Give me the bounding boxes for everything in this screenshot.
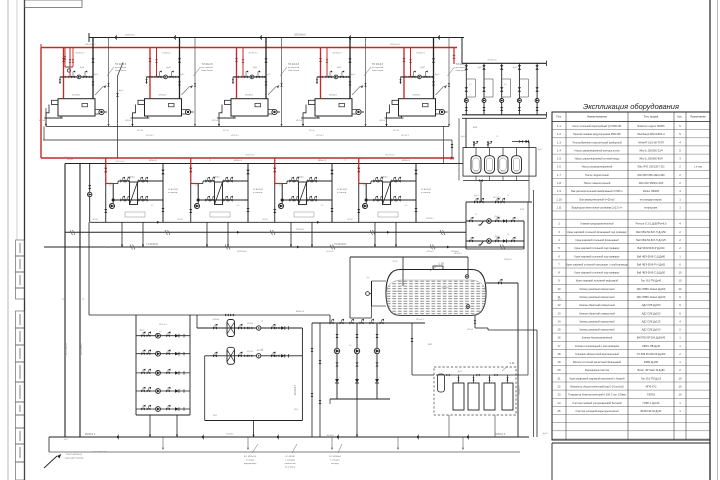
svg-text:13: 13 — [557, 311, 561, 315]
boiler K3 body — [231, 99, 268, 116]
svg-text:Затвор дисковый поворотный: Затвор дисковый поворотный — [579, 287, 615, 291]
tank left drop pipe — [349, 257, 351, 318]
make-up valve a — [474, 198, 478, 204]
row 2 inlet valve — [141, 349, 145, 355]
recirculation pump column 1 — [336, 323, 338, 399]
vent/relief drop line between boilers (after K5) — [448, 38, 450, 127]
north/flow arrow bottom-left — [44, 456, 57, 468]
row 3 inlet valve — [141, 369, 145, 375]
vent/relief drop line between boilers (after K1) — [108, 38, 110, 127]
accumulator tank body — [386, 270, 486, 316]
make-up unit right bus — [523, 221, 525, 249]
frame inner left border — [24, 0, 26, 480]
tank bottom drain — [474, 316, 476, 329]
manifold drop valve K3 — [232, 79, 234, 82]
manifold pump K2 — [164, 75, 168, 79]
run1 inlet valve — [469, 217, 473, 223]
valve on relief drop 2 — [194, 83, 196, 86]
svg-text:Затвор дисковый поворотный: Затвор дисковый поворотный — [579, 328, 615, 332]
svg-text:Wilo IL 150/260-22/4: Wilo IL 150/260-22/4 — [639, 148, 663, 152]
svg-text:Ду32: Ду32 — [140, 330, 146, 332]
svg-text:25: 25 — [557, 409, 561, 413]
run 2 valve d — [249, 354, 253, 357]
pump station column 3 — [501, 63, 503, 115]
pump station top bus — [462, 62, 546, 64]
svg-text:Ø89х3,5: Ø89х3,5 — [454, 253, 463, 255]
svg-text:в атмосф.: в атмосф. — [253, 191, 263, 194]
group T1 left drop — [105, 184, 107, 223]
left drop valve T3 — [273, 209, 276, 213]
svg-text:ГУВР-1 Ду100: ГУВР-1 Ду100 — [643, 401, 660, 405]
column 2 pump — [482, 99, 486, 103]
svg-text:Гал 161-ТМ Ду40: Гал 161-ТМ Ду40 — [641, 279, 662, 283]
row 4 inlet valve 2 — [147, 387, 151, 393]
drain channel left drop — [45, 108, 47, 126]
boiler K5 return riser — [433, 38, 435, 99]
manifold valve (red side) K2 — [152, 76, 156, 79]
boiler K5 supply riser (red) — [403, 48, 405, 99]
valve on K5 supply riser — [403, 58, 406, 62]
manifold valve K2 — [158, 76, 162, 79]
boiler K4 sight box — [339, 103, 345, 106]
group T4 upper piping — [371, 180, 383, 182]
column 1 middle valve — [465, 87, 468, 91]
svg-text:Wilo IL 250/390-90/4: Wilo IL 250/390-90/4 — [639, 157, 663, 161]
svg-text:К-2 Ø108х4: К-2 Ø108х4 — [329, 456, 341, 458]
svg-text:Ø108: Ø108 — [67, 159, 73, 161]
group T4 base frame — [378, 212, 398, 217]
svg-text:23: 23 — [557, 393, 561, 397]
run 2 check valve — [281, 354, 285, 357]
row 2 inlet valve 2 — [147, 349, 151, 355]
tank drain valve — [474, 320, 477, 323]
HX inlet valve T1 — [120, 177, 125, 183]
bus flow arrows — [157, 221, 160, 224]
svg-text:Ø57х3,5: Ø57х3,5 — [146, 135, 155, 137]
svg-text:Ду80: Ду80 — [337, 67, 341, 69]
tank level gauge — [366, 292, 370, 296]
run 1 valve d — [249, 327, 253, 330]
drain loop bottom line — [89, 314, 330, 316]
svg-text:18: 18 — [557, 352, 561, 356]
svg-text:Ø108: Ø108 — [92, 219, 98, 221]
left drop valve T1 — [104, 209, 107, 213]
HX lower valve T1 — [120, 196, 125, 202]
svg-text:Ду40: Ду40 — [495, 236, 501, 238]
manifold valve K3 — [256, 76, 260, 79]
svg-text:Wilo IP-E 100/135-7,5/2: Wilo IP-E 100/135-7,5/2 — [637, 165, 665, 169]
HX lower valve pair T1 — [125, 196, 129, 202]
make-up branch pipe 2 — [72, 48, 74, 68]
svg-text:Ø57х3: Ø57х3 — [309, 130, 316, 132]
drain tray lip K1 — [44, 117, 63, 119]
drain drop K4 — [302, 118, 304, 126]
svg-text:Ø108: Ø108 — [262, 219, 268, 221]
make-up unit bottom tie — [466, 248, 524, 250]
run 2 flow meter — [257, 354, 261, 358]
strainer run 2 — [205, 355, 303, 357]
run 2 valve b — [238, 352, 242, 358]
valve on K3 safety riser — [242, 59, 245, 62]
make-up pump run 2 — [466, 240, 524, 242]
riser a lower valve — [311, 393, 314, 397]
svg-text:Экспликация оборудования: Экспликация оборудования — [583, 102, 679, 111]
svg-text:Фильтр сетчатый магнитный флан: Фильтр сетчатый магнитный фланцевый — [573, 360, 622, 364]
drain tray lip K3 — [217, 117, 236, 119]
manifold valve (red side) K1 — [65, 76, 69, 79]
stack bottom bus — [136, 414, 190, 416]
column 3 middle valve — [500, 87, 503, 91]
svg-text:10: 10 — [678, 393, 682, 397]
callout leader K2 — [194, 67, 201, 76]
HX outlet valve T1 — [138, 177, 143, 183]
group T1 drops to header — [121, 222, 123, 247]
run 1 valve b — [238, 324, 242, 330]
svg-text:25 ВОЗД.2: 25 ВОЗД.2 — [337, 189, 348, 191]
treatment valve b — [476, 374, 479, 376]
valve on supply drop T1 — [104, 168, 107, 172]
valve on supply drop T2 — [189, 168, 192, 172]
svg-text:Насос подпиточный: Насос подпиточный — [585, 173, 609, 177]
boiler K2 circulating pump — [182, 110, 187, 115]
svg-text:10: 10 — [557, 287, 561, 291]
svg-text:Кран шаровой латунный муфтовый: Кран шаровой латунный муфтовый — [576, 279, 618, 283]
treatment valve c — [494, 374, 497, 376]
boiler K3 drain tray — [219, 105, 234, 119]
svg-text:1.7: 1.7 — [557, 173, 561, 177]
HX inlet valve pair T3 — [294, 177, 299, 183]
sheet outer left edge — [7, 0, 9, 480]
svg-text:1.6: 1.6 — [557, 165, 561, 169]
stamp box vertical text marks — [19, 243, 21, 253]
svg-text:Ду80: Ду80 — [420, 67, 424, 69]
cluster drop to main — [356, 399, 358, 437]
stack left bus — [135, 315, 137, 415]
HX outlet valve pair T1 — [143, 177, 148, 183]
empty stamp box below table — [552, 443, 710, 480]
HX inlet valve pair T2 — [210, 177, 215, 183]
HX outlet valve T2 — [223, 177, 228, 183]
svg-text:Ø108: Ø108 — [347, 219, 353, 221]
expansion tank B4 — [516, 148, 518, 156]
tank B3 membrane — [500, 158, 506, 171]
top bus end tick — [545, 61, 547, 67]
column 3 check valve — [375, 379, 379, 383]
HX inlet valve T3 — [289, 177, 294, 183]
secondary supply main (red) — [41, 157, 454, 159]
column 5 middle valve — [535, 87, 538, 91]
tank B4 drain stub — [516, 176, 518, 180]
tank label leader — [430, 266, 437, 271]
drain drop — [331, 437, 333, 448]
valve on supply drop T4 — [357, 168, 360, 172]
svg-text:16: 16 — [557, 336, 561, 340]
svg-text:подающий т/провод: подающий т/провод — [65, 457, 84, 460]
boiler K5 drain tray — [387, 105, 402, 119]
stack drop 1 — [149, 415, 151, 437]
svg-text:Взлёт ЭР Лайт-М Ду80: Взлёт ЭР Лайт-М Ду80 — [637, 368, 665, 372]
boiler K5 body — [399, 99, 436, 116]
svg-text:Счётчик газовый ультразвуковой: Счётчик газовый ультразвуковой бытовой — [572, 401, 622, 405]
valve on K1 return riser — [91, 58, 94, 62]
make-up pump run 1 — [466, 220, 524, 222]
lower valve on K2 return riser — [178, 82, 181, 86]
svg-text:1.10: 1.10 — [438, 262, 444, 266]
svg-text:в колодец: в колодец — [285, 460, 295, 462]
svg-text:Ø108х4,0: Ø108х4,0 — [295, 384, 297, 395]
svg-text:Ø57х3,5: Ø57х3,5 — [316, 135, 325, 137]
manifold vent stub 2 K5 — [425, 72, 427, 77]
plate heat exchanger T4 — [383, 182, 391, 205]
group T4 return riser — [415, 164, 417, 223]
svg-text:Prescor S 2.0 Ду50/Рр=6,0: Prescor S 2.0 Ду50/Рр=6,0 — [636, 222, 667, 226]
manifold vent stub K1 — [72, 72, 74, 77]
svg-text:Ø219х6,0: Ø219х6,0 — [115, 161, 125, 163]
svg-text:Ø159х4,5: Ø159х4,5 — [237, 251, 247, 253]
HX lower outlet valve pair T1 — [143, 196, 148, 202]
svg-text:Ø57х3: Ø57х3 — [393, 130, 400, 132]
left drain riser of tanks — [458, 118, 460, 180]
svg-text:2Ø219х6,0: 2Ø219х6,0 — [294, 34, 306, 37]
treatment unit drops to drain — [448, 415, 450, 437]
treatment feed valve — [411, 338, 414, 342]
svg-text:Насос повысительный: Насос повысительный — [584, 181, 611, 185]
plate heat exchanger T3 — [299, 182, 307, 205]
boiler K4 circulating pump — [352, 110, 357, 115]
boiler K1 sight box — [82, 103, 88, 106]
svg-text:Ø108х4: Ø108х4 — [326, 435, 334, 437]
svg-text:1.1: 1.1 — [557, 124, 561, 128]
HX outlet valve pair T2 — [228, 177, 233, 183]
svg-text:Ø57х3: Ø57х3 — [212, 120, 219, 122]
pump station column 1 — [465, 63, 467, 115]
riser b lower valve — [319, 400, 322, 404]
svg-text:низа балок: низа балок — [288, 70, 299, 72]
manifold drop valve K2 — [145, 79, 147, 82]
svg-text:Ø108х4: Ø108х4 — [329, 95, 337, 97]
svg-text:ХВП: ХВП — [428, 344, 433, 346]
group T4 circulation pump — [363, 204, 368, 209]
svg-text:Термометр биметаллический 0-15: Термометр биметаллический 0-150 С пог. 1… — [568, 393, 626, 397]
svg-text:Ø76х3: Ø76х3 — [213, 319, 220, 321]
drain drop K3 — [218, 118, 220, 126]
HX outlet valve pair T3 — [312, 177, 317, 183]
column 2 bypass — [492, 79, 494, 97]
svg-text:Ø57х3: Ø57х3 — [126, 120, 133, 122]
stack right bus — [189, 315, 191, 415]
make-up valve b — [480, 198, 484, 204]
svg-text:АБ2 ЗПВС-16нж1 Ду150: АБ2 ЗПВС-16нж1 Ду150 — [637, 295, 666, 299]
make-up unit left bus — [465, 202, 467, 249]
pump outlet K4 — [361, 111, 364, 113]
make-up pump 2 — [487, 239, 492, 244]
manifold pump K1 — [77, 75, 81, 79]
group T3 return riser — [331, 164, 333, 223]
table rows — [552, 129, 710, 131]
svg-text:Ø76х3: Ø76х3 — [247, 351, 254, 353]
manifold valve (red side) K3 — [238, 76, 242, 79]
svg-text:до отметки: до отметки — [288, 67, 300, 69]
burner of boiler K1 — [52, 100, 59, 104]
svg-text:Ø108х4,0: Ø108х4,0 — [162, 53, 172, 55]
valve on make-up branch 2 — [72, 59, 74, 62]
vent/relief drop line between boilers (after K4) — [365, 38, 367, 127]
left riser 2 — [79, 164, 81, 438]
lower valve on return riser T1 — [162, 208, 165, 212]
HX lower valve pair T3 — [294, 196, 299, 202]
svg-text:К1-2 Øсущ: К1-2 Øсущ — [285, 467, 295, 469]
svg-text:Ду80: Ду80 — [166, 67, 170, 69]
table header underline — [552, 121, 710, 123]
svg-text:МП4-УУ2: МП4-УУ2 — [646, 385, 657, 389]
recirculation pump 3 — [374, 348, 379, 353]
recirculation pump 1 — [334, 348, 339, 353]
svg-text:Насос циркуляционный сетевой в: Насос циркуляционный сетевой воды — [575, 157, 620, 161]
svg-text:ТО{idx}: ТО{idx} — [213, 177, 220, 179]
svg-text:АД2 СУВ Ду150: АД2 СУВ Ду150 — [642, 311, 661, 315]
boiler1 side drop pipe — [117, 76, 119, 158]
svg-text:В-1 Ø57х3,5: В-1 Ø57х3,5 — [244, 456, 257, 458]
manifold drop valve K5 — [399, 79, 401, 82]
strainer run 1 feed — [196, 315, 198, 328]
svg-text:непрерывн.: непрерывн. — [644, 206, 658, 209]
vent/relief drop line between boilers (after K3) — [281, 38, 283, 127]
tank B3 drain stub — [502, 176, 504, 180]
svg-text:12: 12 — [678, 287, 682, 291]
softener filter 4 — [502, 383, 513, 410]
lower valve on return riser T2 — [247, 208, 250, 212]
drain drop K2 — [132, 118, 134, 126]
svg-text:низа балок: низа балок — [202, 70, 213, 72]
boiler K2 return riser — [179, 38, 181, 99]
svg-text:21: 21 — [557, 376, 561, 380]
run 2 inlet valve — [213, 352, 217, 358]
make-up line of group T1 — [89, 164, 91, 223]
svg-text:Ур.: Ур. — [367, 277, 370, 279]
svg-text:Ø57х3: Ø57х3 — [380, 120, 387, 122]
column 3 lower valve — [500, 107, 503, 111]
group T1 supply drop (red) — [105, 158, 107, 184]
svg-text:24: 24 — [557, 401, 561, 405]
expansion tank B1 — [475, 148, 477, 156]
svg-text:Бак расширительный мембранный: Бак расширительный мембранный V=500 л — [571, 189, 623, 193]
svg-text:Ball ЧБЭ-50-В-С-Д Ду50: Ball ЧБЭ-50-В-С-Д Ду50 — [637, 271, 666, 275]
row 3 check valve — [175, 371, 179, 374]
boiler K3 sight box — [255, 103, 261, 106]
svg-text:Ø108х4,0: Ø108х4,0 — [85, 433, 96, 436]
group T4 junction dot — [365, 199, 368, 202]
svg-text:500л: 500л — [514, 171, 518, 173]
svg-text:Ø57х3,5: Ø57х3,5 — [401, 135, 410, 137]
boiler K1 drain tray — [46, 105, 61, 119]
lower valve on K3 return riser — [265, 82, 268, 86]
callout leader K4 — [364, 67, 371, 76]
valve on relief tie — [451, 144, 454, 148]
group T4 lower piping — [366, 199, 416, 201]
make-up unit valve row — [466, 201, 532, 203]
make-up pump row 2 — [136, 353, 190, 355]
svg-text:Расходомер-счётчик: Расходомер-счётчик — [585, 368, 610, 372]
manifold valve K4 — [340, 76, 344, 79]
svg-text:25 ВОЗД.2: 25 ВОЗД.2 — [253, 189, 264, 191]
make-up pump row 4 — [136, 390, 190, 392]
svg-text:25 ВОЗД.2: 25 ВОЗД.2 — [421, 189, 432, 191]
svg-text:водопровода: водопровода — [244, 463, 257, 465]
svg-text:НН№47-16/1-66-ТКТЛ: НН№47-16/1-66-ТКТЛ — [638, 140, 664, 144]
svg-text:Кран шаровой стальной под прив: Кран шаровой стальной под приварку — [575, 254, 621, 258]
valve on K2 supply riser — [149, 58, 152, 62]
svg-text:12: 12 — [557, 303, 561, 307]
make-up pump row 3 — [136, 372, 190, 374]
supply elbow T3 — [275, 183, 282, 185]
svg-text:Ø108х4,0: Ø108х4,0 — [416, 53, 426, 55]
valve on K2 return riser — [178, 58, 181, 62]
drain drop — [162, 437, 164, 448]
manifold valve (red side) K4 — [322, 76, 326, 79]
supply main left end tick — [40, 44, 42, 51]
return main pipe T2 (top black) — [89, 37, 464, 39]
right drain riser — [536, 330, 538, 437]
tank dip tube — [402, 257, 404, 286]
svg-text:Счётчик холодной воды крыльчат: Счётчик холодной воды крыльчатый — [575, 409, 619, 413]
lower valve on return riser T4 — [415, 208, 418, 212]
column 1 bypass — [474, 79, 476, 97]
svg-text:Кран шаровой стальной присоеди: Кран шаровой стальной присоедин. к трубо… — [566, 262, 628, 266]
upper link T3 — [282, 183, 287, 185]
frame inner right border — [709, 0, 711, 480]
boiler K3 return riser — [265, 38, 267, 99]
valve on K4 safety riser — [326, 59, 329, 62]
svg-text:низа балок: низа балок — [456, 70, 467, 72]
tank feed stub — [512, 141, 529, 143]
boiler K5 sight box — [423, 103, 429, 106]
group T1 upper piping — [118, 180, 130, 182]
burner of boiler K5 — [392, 100, 399, 104]
manifold valve K1 — [83, 76, 87, 79]
column 1 pump — [464, 99, 468, 103]
row 5 outlet valve — [166, 405, 170, 411]
manifold vent stub 2 K2 — [171, 72, 173, 77]
return main turndown — [461, 38, 463, 64]
heat exchanger diagonal T4 — [383, 182, 391, 205]
svg-text:низа балок: низа балок — [372, 70, 383, 72]
callout leader K3 — [280, 67, 287, 76]
expansion tank B3 — [502, 148, 504, 156]
svg-text:в атмосф.: в атмосф. — [421, 191, 431, 194]
svg-text:Бак аккумуляторный V=25 м3: Бак аккумуляторный V=25 м3 — [580, 197, 616, 201]
make-up pump row 1 — [136, 335, 190, 337]
group T3 junction dot — [281, 199, 284, 202]
supply down pipe T3 — [281, 184, 283, 201]
valve on loop line 2 — [230, 314, 234, 317]
svg-text:Клапан балансировочный: Клапан балансировочный — [582, 336, 613, 340]
filter 4 valve — [506, 378, 508, 381]
column 5 pump — [535, 99, 539, 103]
row 4 outlet valve — [166, 387, 170, 393]
run2 check valve — [503, 239, 507, 242]
manifold vent stub K4 — [329, 72, 331, 77]
svg-text:Ду80: Ду80 — [80, 67, 84, 69]
valve on return riser T1 — [161, 170, 164, 174]
boiler K1 safety riser (red) — [69, 48, 71, 77]
return sub-main of HX groups — [65, 163, 463, 165]
tank outlet right — [486, 282, 518, 284]
svg-text:Ø108х4: Ø108х4 — [226, 434, 234, 436]
svg-text:АД2 СУВ Ду100: АД2 СУВ Ду100 — [642, 328, 661, 332]
valve on K3 return riser — [264, 58, 267, 62]
group T4 supply drop (red) — [358, 158, 360, 184]
gauge drain — [371, 306, 373, 318]
